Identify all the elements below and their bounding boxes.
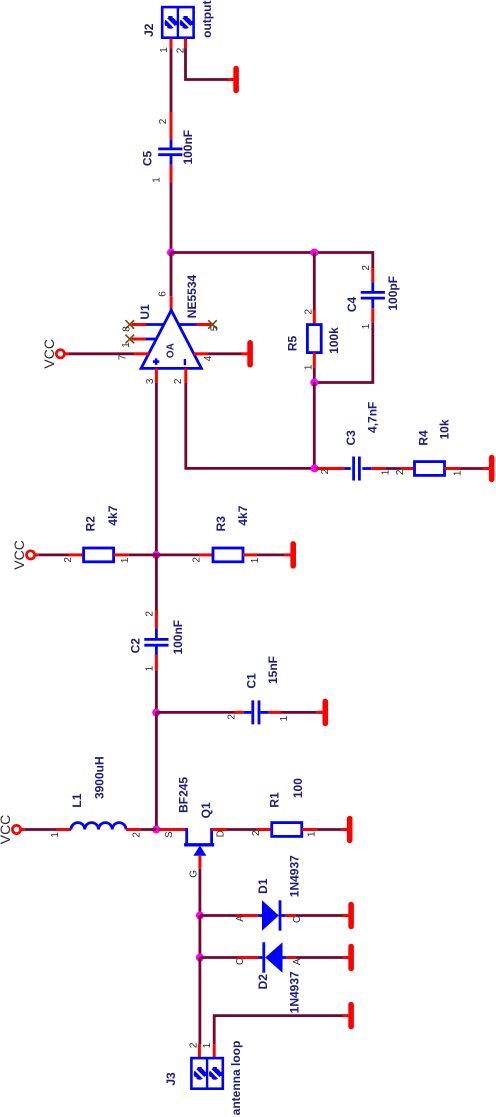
- svg-text:4,7nF: 4,7nF: [366, 402, 380, 433]
- wire R1 to ground: [317, 828, 341, 831]
- wire R3 to ground: [257, 554, 285, 557]
- svg-text:15nF: 15nF: [266, 656, 280, 684]
- svg-text:antenna loop: antenna loop: [229, 1041, 243, 1116]
- op-amp U1 plus mark: [153, 360, 159, 363]
- svg-text:A: A: [292, 958, 303, 965]
- svg-text:1: 1: [250, 557, 261, 563]
- pin J2-2: [184, 39, 187, 49]
- svg-text:C4: C4: [345, 297, 359, 313]
- capacitor C2: [155, 610, 158, 628]
- op-amp U1 pin 3: [155, 368, 158, 383]
- svg-text:L1: L1: [70, 793, 84, 807]
- pin J3-2: [198, 1044, 201, 1057]
- resistor R4: [402, 467, 415, 470]
- wire VCC to R2: [39, 554, 69, 557]
- wire R5 to node C: [313, 367, 316, 382]
- resistor R5: [313, 310, 316, 325]
- capacitor C4: [371, 268, 374, 282]
- svg-text:100k: 100k: [327, 327, 341, 354]
- wire D1 to ground: [295, 914, 342, 917]
- wire node H to D1: [200, 914, 238, 917]
- svg-text:1: 1: [144, 665, 155, 671]
- wire node E to C2: [155, 555, 158, 614]
- wire C5 to node A: [170, 183, 173, 253]
- VCC supply at R2: [34, 553, 38, 556]
- svg-text:D1: D1: [256, 878, 270, 894]
- svg-text:C: C: [235, 958, 246, 965]
- transistor Q1 pin G: [198, 856, 201, 869]
- svg-text:5: 5: [209, 325, 220, 331]
- wire J2-1 to C5: [170, 49, 173, 113]
- svg-text:1: 1: [152, 177, 163, 183]
- svg-text:100pF: 100pF: [386, 276, 400, 311]
- junction node D: [311, 464, 319, 472]
- svg-text:100nF: 100nF: [181, 130, 195, 165]
- junction node H: [196, 912, 204, 920]
- svg-text:1: 1: [120, 557, 131, 563]
- resistor R1: [257, 828, 272, 831]
- VCC supply at U1 pin 7: [64, 352, 68, 355]
- svg-text:C5: C5: [140, 151, 154, 167]
- op-amp U1 minus mark: [184, 359, 186, 365]
- ground near J2: [228, 78, 234, 81]
- diode D1: [237, 914, 258, 917]
- VCC supply at L1: [20, 828, 24, 831]
- wire C3 to R4: [385, 467, 401, 470]
- wire VCC to L1: [25, 828, 57, 831]
- op-amp U1 pin 2: [184, 368, 187, 383]
- wire Q1 D to R1: [227, 828, 257, 831]
- svg-text:D: D: [216, 830, 227, 837]
- wire node I to D2: [200, 956, 238, 959]
- junction node G: [152, 826, 160, 834]
- wire VCC to U1 pin 7: [69, 352, 135, 355]
- ground near D1: [343, 914, 349, 917]
- wire C4 to node C: [314, 323, 373, 383]
- svg-text:4k7: 4k7: [236, 505, 250, 525]
- svg-text:1: 1: [453, 470, 464, 476]
- svg-text:1: 1: [279, 715, 290, 721]
- svg-text:D2: D2: [256, 974, 270, 990]
- svg-text:VCC: VCC: [41, 339, 57, 369]
- svg-text:2: 2: [361, 265, 372, 271]
- ground near R3: [285, 553, 291, 556]
- capacitor C5: [170, 112, 173, 140]
- svg-text:3900uH: 3900uH: [93, 756, 107, 799]
- svg-text:2: 2: [226, 714, 237, 720]
- wire U1 pin 4 to ground: [208, 352, 241, 355]
- wire node A to U1 pin 6: [170, 253, 173, 297]
- junction node E: [152, 551, 160, 559]
- svg-text:2: 2: [189, 1042, 200, 1048]
- svg-text:J3: J3: [164, 1072, 178, 1086]
- svg-text:U1: U1: [138, 304, 152, 320]
- wire C2 to node F: [155, 671, 158, 713]
- svg-text:R3: R3: [214, 516, 228, 532]
- svg-text:G: G: [188, 870, 199, 878]
- svg-text:2: 2: [191, 557, 202, 563]
- svg-text:2: 2: [132, 832, 143, 838]
- svg-text:7: 7: [117, 354, 128, 360]
- svg-text:R4: R4: [417, 430, 431, 446]
- wire Q1 G to node H: [198, 869, 201, 916]
- inductor L1: [57, 828, 71, 831]
- svg-text:OA: OA: [165, 343, 176, 358]
- wire L1 to node G: [140, 828, 156, 831]
- wire node I to J3 pin 2: [198, 958, 201, 1045]
- op-amp U1 pin 5 (NC): [179, 323, 197, 326]
- transistor Q1 pin S: [159, 828, 187, 831]
- svg-text:1: 1: [50, 832, 61, 838]
- junction node C: [310, 379, 318, 387]
- wire node C to node D: [313, 383, 316, 469]
- ground near R1: [341, 828, 347, 831]
- ground near J3: [343, 1014, 349, 1017]
- svg-text:BF245: BF245: [177, 777, 191, 813]
- diode D2: [237, 956, 258, 959]
- svg-text:6: 6: [158, 291, 169, 297]
- wire R2 to node E: [129, 554, 157, 557]
- pin J3-1: [213, 1044, 216, 1057]
- wire J2-2 to ground: [186, 49, 228, 80]
- wire node F to C1: [156, 711, 234, 714]
- svg-text:2: 2: [251, 830, 262, 836]
- svg-text:10k: 10k: [438, 419, 452, 439]
- svg-text:C1: C1: [245, 673, 259, 689]
- svg-text:R1: R1: [268, 792, 282, 808]
- junction node B: [310, 249, 318, 257]
- svg-text:1N4937: 1N4937: [287, 971, 301, 1013]
- svg-text:1: 1: [361, 323, 372, 329]
- pin J2-1: [170, 39, 173, 49]
- svg-text:S: S: [164, 831, 175, 838]
- resistor R2: [69, 553, 84, 556]
- junction node I: [196, 954, 204, 962]
- op-amp U1 pin 8 (NC): [146, 323, 164, 326]
- svg-text:1: 1: [304, 364, 315, 370]
- ground near R4: [483, 467, 489, 470]
- svg-text:C3: C3: [344, 430, 358, 446]
- svg-text:2: 2: [144, 611, 155, 617]
- wire node B to R5: [313, 253, 316, 311]
- svg-text:A: A: [235, 915, 246, 922]
- svg-text:C2: C2: [129, 638, 143, 654]
- ground near U1: [242, 352, 248, 355]
- svg-text:VCC: VCC: [11, 540, 27, 570]
- svg-text:3: 3: [145, 378, 156, 384]
- junction node F: [152, 709, 160, 717]
- wire node E to R3: [156, 554, 200, 557]
- connector J2: [162, 7, 193, 38]
- wire node A to C4 branch: [171, 253, 373, 269]
- junction node A: [167, 249, 175, 257]
- svg-text:2: 2: [395, 469, 406, 475]
- transistor Q1 pin D: [212, 828, 227, 831]
- ground near C1: [317, 711, 323, 714]
- op-amp U1 pin 1 (NC): [146, 338, 156, 341]
- svg-text:1: 1: [159, 47, 170, 53]
- svg-text:R2: R2: [84, 516, 98, 532]
- svg-text:J2: J2: [142, 23, 156, 37]
- svg-text:100nF: 100nF: [171, 620, 185, 655]
- op-amp U1 pin 4: [194, 352, 208, 355]
- resistor R3: [199, 553, 213, 556]
- svg-text:1: 1: [121, 342, 132, 348]
- op-amp U1 pin 7: [134, 352, 148, 355]
- svg-text:output: output: [200, 1, 214, 38]
- wire J3 pin 1 to ground: [214, 1016, 342, 1045]
- wire node H to node I: [198, 916, 201, 958]
- svg-text:2: 2: [320, 468, 331, 474]
- capacitor C3: [316, 467, 345, 470]
- transistor Q1 body: [185, 828, 188, 844]
- connector J3: [191, 1058, 222, 1089]
- svg-text:4k7: 4k7: [106, 505, 120, 525]
- wire C1 to ground: [281, 711, 317, 714]
- ground near D2: [343, 956, 349, 959]
- svg-text:R5: R5: [286, 336, 300, 352]
- wire U1 pin 2 to node D: [186, 383, 318, 469]
- op-amp U1 body: [141, 310, 201, 368]
- svg-text:NE5534: NE5534: [185, 274, 199, 318]
- capacitor C1: [234, 711, 243, 714]
- svg-text:4: 4: [203, 355, 214, 361]
- svg-text:VCC: VCC: [0, 815, 13, 845]
- svg-text:8: 8: [121, 326, 132, 332]
- svg-text:Q1: Q1: [199, 802, 213, 818]
- wire R4 to ground: [461, 467, 484, 470]
- wire node F to node G: [155, 712, 158, 829]
- svg-text:1: 1: [381, 469, 392, 475]
- svg-text:2: 2: [173, 378, 184, 384]
- svg-text:100: 100: [291, 778, 305, 798]
- wire U1 pin 3 to node E: [155, 383, 158, 555]
- op-amp U1 pin 6: [170, 296, 173, 310]
- svg-text:2: 2: [63, 557, 74, 563]
- svg-text:1N4937: 1N4937: [287, 855, 301, 897]
- wire D2 to ground: [295, 956, 342, 959]
- svg-text:1: 1: [306, 831, 317, 837]
- svg-text:2: 2: [158, 118, 169, 124]
- svg-text:2: 2: [304, 308, 315, 314]
- svg-text:1: 1: [202, 1042, 213, 1048]
